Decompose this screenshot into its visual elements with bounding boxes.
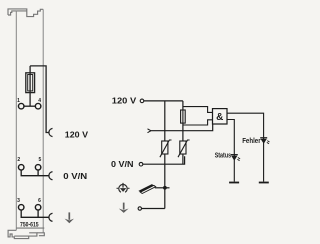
ground bar Status bbox=[229, 182, 239, 184]
wire tap lower bbox=[183, 120, 213, 125]
terminal 4 bbox=[35, 103, 41, 109]
wire node column down bbox=[164, 164, 166, 208]
ground arrow (schematic) bbox=[119, 203, 129, 213]
wire tap upper bbox=[183, 107, 213, 113]
clamp 0V bbox=[49, 172, 53, 180]
svg-text:Status: Status bbox=[215, 150, 231, 159]
wire bus 0V row bbox=[21, 170, 49, 176]
svg-text:&: & bbox=[216, 112, 223, 123]
terminal 6 bbox=[35, 205, 41, 211]
terminal 3 bbox=[18, 205, 24, 211]
svg-text:0 V/N: 0 V/N bbox=[63, 171, 87, 181]
terminal circle 120V bbox=[140, 99, 144, 103]
wire bottom row bbox=[142, 208, 165, 210]
wire RV2 bottom bbox=[182, 154, 184, 164]
junction dot bbox=[163, 186, 167, 190]
svg-text:2: 2 bbox=[17, 157, 20, 163]
varistor RV2 top wire bbox=[182, 131, 184, 141]
ground arrow (module) bbox=[65, 212, 74, 223]
wire through fuse bbox=[29, 66, 31, 106]
clamp 120V bbox=[49, 128, 53, 136]
varistor RV1 bbox=[162, 141, 168, 154]
wire after-fuse line with gate reference bbox=[151, 124, 213, 131]
module body right edge bbox=[42, 9, 44, 232]
svg-text:5: 5 bbox=[39, 157, 42, 163]
fuse F2 bbox=[181, 110, 186, 123]
terminal circle bottom bbox=[138, 207, 141, 210]
wire fuse column bbox=[182, 101, 184, 131]
DIN rail bottom profile bbox=[8, 230, 44, 238]
varistor RV2 bbox=[180, 141, 186, 154]
module body left edge bbox=[15, 11, 17, 231]
module bottom divider bbox=[16, 227, 44, 229]
wire bracket to 120V clamp bbox=[30, 66, 49, 133]
LED Fehler bbox=[260, 138, 269, 144]
wire terminal 1 to 4 bbox=[24, 105, 35, 107]
terminal 2 bbox=[18, 165, 24, 171]
blade contact symbol bbox=[138, 184, 155, 193]
svg-text:1: 1 bbox=[17, 98, 20, 104]
wire varistor column 1 bbox=[164, 101, 166, 141]
svg-text:0 V/N: 0 V/N bbox=[111, 159, 134, 169]
fuse F1 inner bbox=[28, 75, 33, 91]
wire 0V line bbox=[143, 156, 185, 164]
wire bus ground row bbox=[21, 210, 49, 217]
svg-text:3: 3 bbox=[17, 198, 20, 204]
svg-text:120 V: 120 V bbox=[112, 96, 137, 106]
wire 120V top bbox=[144, 100, 183, 102]
wire output Status bbox=[227, 120, 234, 182]
wire RV1 bottom bbox=[164, 154, 166, 164]
svg-text:Fehler: Fehler bbox=[242, 136, 261, 145]
ground bar Fehler bbox=[259, 182, 269, 184]
AND gate U1 bbox=[213, 109, 228, 124]
wire blade to node bbox=[155, 187, 170, 189]
terminal 1 bbox=[18, 103, 24, 109]
power jumper contact symbol bbox=[117, 183, 130, 192]
wire output Fehler bbox=[227, 113, 264, 181]
svg-text:750-615: 750-615 bbox=[20, 222, 39, 228]
clamp ground bbox=[49, 213, 53, 221]
fuse F1 outer bbox=[26, 73, 35, 93]
LED Status bbox=[231, 155, 240, 161]
svg-text:6: 6 bbox=[38, 198, 41, 204]
svg-text:120 V: 120 V bbox=[65, 129, 88, 139]
DIN rail top profile bbox=[8, 9, 43, 17]
arrowhead into after-fuse line bbox=[148, 129, 151, 133]
terminal circle 0V bbox=[139, 162, 143, 166]
terminal 5 bbox=[35, 165, 41, 171]
